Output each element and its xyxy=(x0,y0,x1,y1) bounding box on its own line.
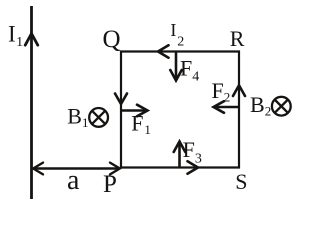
wire QR (top side of loop) xyxy=(120,50,240,52)
svg-text:F4: F4 xyxy=(180,56,199,85)
svg-text:F3: F3 xyxy=(183,137,202,166)
force arrow F2 (leftward from right side) xyxy=(214,101,239,113)
current arrowhead on wire RS (pointing up) xyxy=(233,85,245,96)
svg-text:F1: F1 xyxy=(131,110,151,137)
force arrow F1 (rightward from left side) xyxy=(122,105,148,117)
wire I1 (long straight conductor) xyxy=(30,6,33,199)
field symbol B2 (circle with cross, into page) xyxy=(272,97,291,116)
svg-text:B1: B1 xyxy=(67,103,88,130)
svg-text:F2: F2 xyxy=(212,78,231,104)
force arrow F3 (upward from bottom side) xyxy=(174,142,186,168)
current arrowhead on wire QP (pointing down) xyxy=(115,94,127,105)
force arrow F4 (downward from top side) xyxy=(170,52,181,81)
wire PS (bottom side of loop) xyxy=(120,166,240,168)
wire QP (left side of loop) xyxy=(120,51,122,169)
svg-text:R: R xyxy=(230,26,245,51)
svg-text:S: S xyxy=(235,169,247,194)
svg-text:a: a xyxy=(67,165,80,196)
svg-text:I2: I2 xyxy=(170,20,184,50)
current arrowhead on wire PS (pointing right) xyxy=(188,161,199,173)
current direction arrowhead on wire I1 (upward) xyxy=(25,34,38,46)
dimension line a (between wire I1 and node P) xyxy=(33,163,120,175)
current I2 arrowhead on wire QR (pointing left) xyxy=(158,45,169,57)
svg-text:Q: Q xyxy=(103,26,121,53)
field symbol B1 (circle with cross, into page) xyxy=(89,108,108,127)
svg-text:B2: B2 xyxy=(250,92,271,119)
svg-text:I1: I1 xyxy=(8,22,23,51)
wire RS (right side of loop) xyxy=(238,51,240,169)
